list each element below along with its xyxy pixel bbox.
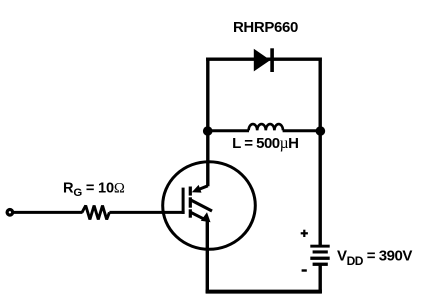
- wire left rail (top corner to collector, through node): [206, 58, 209, 187]
- transistor Q1 middle diagonal: [191, 200, 212, 211]
- battery VDD plate 1 (long): [310, 245, 329, 248]
- transistor Q1 gate bar: [182, 188, 185, 214]
- wire bottom rail: [206, 290, 322, 294]
- wire inductor row right: [283, 129, 322, 132]
- transistor Q1 channel segment bottom: [189, 209, 192, 217]
- transistor Q1 collector arrowhead: [192, 185, 202, 193]
- wire gate lead left of resistor: [13, 211, 83, 214]
- inductor L = 500uH coil: [249, 124, 283, 130]
- battery VDD plate 4 (short): [313, 263, 328, 266]
- svg-text:VDD = 390V: VDD = 390V: [337, 248, 412, 268]
- label battery minus: [302, 269, 307, 271]
- diode D1 RHRP660: [254, 48, 274, 72]
- transistor Q1 collector arrow shaft: [199, 186, 208, 190]
- wire right rail (top corner to battery +): [319, 58, 322, 246]
- wire battery to bottom rail: [319, 266, 322, 294]
- transistor Q1 emitter arrowhead: [201, 212, 211, 222]
- transistor Q1 channel segment middle: [189, 197, 192, 207]
- input terminal (open circle): [7, 210, 13, 216]
- wire emitter lead: [206, 219, 209, 293]
- node junction dot right: [316, 126, 326, 136]
- resistor RG = 10 ohm (zigzag): [82, 206, 109, 220]
- node junction dot left: [203, 126, 213, 136]
- transistor Q1 emitter diagonal: [191, 212, 204, 218]
- wire gate lead right of resistor: [109, 211, 184, 214]
- battery VDD plate 2 (short): [313, 250, 328, 253]
- battery VDD plate 3 (long): [310, 257, 329, 260]
- label battery plus: [301, 230, 308, 237]
- svg-text:RG = 10Ω: RG = 10Ω: [63, 180, 125, 199]
- transistor Q1 channel segment top: [189, 187, 192, 196]
- svg-text:RHRP660: RHRP660: [233, 19, 298, 36]
- wire top rail: [206, 58, 322, 61]
- svg-text:L = 500µH: L = 500µH: [232, 135, 298, 152]
- transistor Q1 circle: [163, 162, 256, 250]
- wire inductor row: [206, 129, 249, 132]
